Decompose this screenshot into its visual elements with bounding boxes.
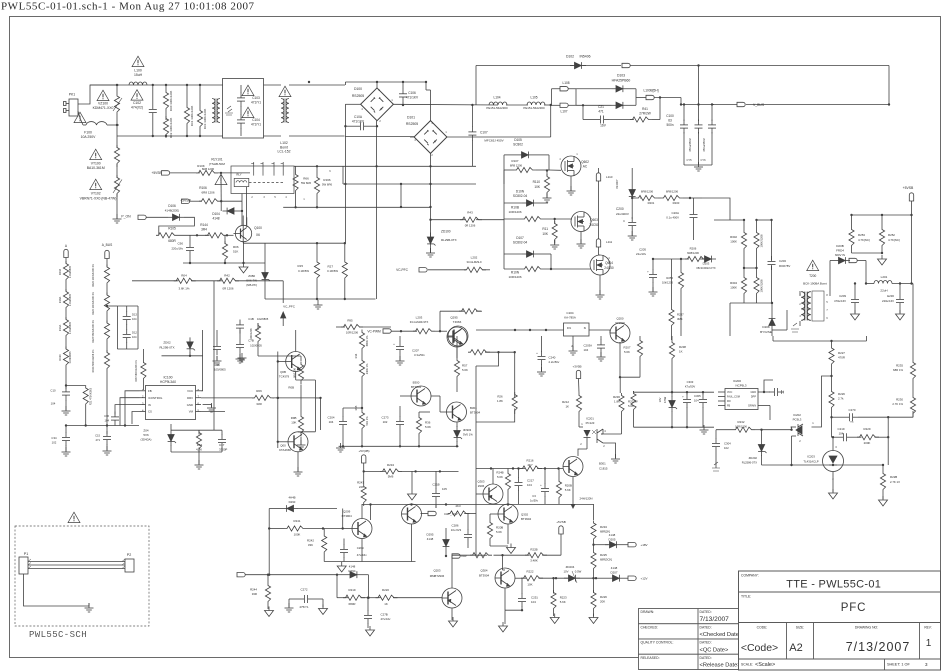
svg-text:D103: D103 [617,74,625,78]
svg-text:R250: R250 [666,276,673,280]
svg-text:VC-PWM: VC-PWM [367,330,381,334]
svg-text:R21 475K/0805: R21 475K/0805 [90,387,93,405]
svg-text:C204: C204 [566,311,574,315]
svg-text:DATED:: DATED: [700,625,712,629]
svg-text:IC100: IC100 [163,376,172,380]
svg-text:L108: L108 [562,81,569,85]
svg-text:PWL55C-SCH: PWL55C-SCH [29,630,87,640]
svg-text:C21B: C21B [432,483,439,487]
svg-text:D295: D295 [427,533,434,537]
svg-text:4148: 4148 [427,537,434,541]
svg-text:5.6K: 5.6K [462,368,468,372]
svg-text:C102: C102 [133,101,141,105]
svg-text:T4666: T4666 [453,320,462,324]
svg-text:104: 104 [584,348,589,352]
svg-text:102/0805: 102/0805 [257,317,269,321]
svg-text:R10B: R10B [511,206,519,210]
svg-text:22uH: 22uH [880,289,887,293]
svg-text:0.1R/5W: 0.1R/5W [298,269,309,273]
svg-text:R66: R66 [303,177,309,181]
svg-text:FRD4: FRD4 [836,249,844,253]
svg-text:L202: L202 [471,256,478,260]
svg-text:R14: R14 [354,353,358,358]
svg-text:R236: R236 [613,395,620,399]
svg-text:4148: 4148 [349,565,356,569]
svg-text:R95: R95 [347,319,353,323]
svg-text:VBRN71-XX0 (NB-47W): VBRN71-XX0 (NB-47W) [80,197,117,201]
svg-text:6R8 1206: 6R8 1206 [202,167,215,171]
svg-text:C20A: C20A [671,211,679,215]
svg-text:5.6K: 5.6K [496,530,502,534]
svg-text:R41: R41 [642,107,648,111]
svg-text:1K: 1K [384,602,388,606]
svg-text:DRAWN:: DRAWN: [641,610,655,614]
svg-text:10R/1206: 10R/1206 [508,210,521,214]
svg-text:10K: 10K [291,421,296,425]
svg-text:2.2u/50v: 2.2u/50v [549,360,560,364]
svg-text:5.6K: 5.6K [560,600,566,604]
svg-text:BT3904: BT3904 [342,514,353,518]
svg-text:(NB-PF): (NB-PF) [246,283,257,287]
svg-text:24H/120N: 24H/120N [579,497,592,501]
svg-text:Q303: Q303 [477,480,484,484]
svg-text:DATED:: DATED: [700,656,712,660]
svg-text:R230: R230 [896,398,903,402]
svg-text:BT3904: BT3904 [470,411,481,415]
svg-text:R17: R17 [197,443,203,447]
svg-text:PK1: PK1 [69,93,76,97]
svg-text:R144: R144 [200,223,208,227]
svg-text:L100: L100 [134,69,142,73]
svg-text:R18A: R18A [58,296,62,303]
svg-text:RX1 330K/1206: RX1 330K/1206 [190,105,194,126]
svg-text:DPP: DPP [751,396,756,399]
svg-text:102: 102 [724,446,729,450]
svg-text:5.6K: 5.6K [624,350,630,354]
svg-text:L105: L105 [530,96,537,100]
svg-text:470u/16V: 470u/16V [834,299,846,303]
svg-text:C207: C207 [412,349,419,353]
svg-text:R225: R225 [600,553,607,557]
svg-text:C305: C305 [694,394,701,398]
svg-text:ZD204: ZD204 [566,565,575,569]
svg-text:350u/450V: 350u/450V [688,138,692,152]
svg-text:C217: C217 [527,479,534,483]
svg-text:24C50: 24C50 [589,223,599,227]
svg-text:Q100: Q100 [254,226,262,230]
svg-text:R22B: R22B [530,548,537,552]
svg-text:R105: R105 [168,227,176,231]
svg-text:R45 560K/1206 1%: R45 560K/1206 1% [135,359,138,381]
svg-text:A_BUS: A_BUS [102,243,112,247]
svg-text:CY5: CY5 [686,158,692,162]
svg-text:1K: 1K [679,350,683,354]
svg-text:VZ100: VZ100 [98,102,108,106]
svg-text:4148: 4148 [609,533,616,537]
svg-text:FAUL_COM: FAUL_COM [727,396,740,399]
svg-text:C34: C34 [51,436,57,440]
svg-text:IN: IN [148,403,151,407]
svg-text:RX3 330K/1206: RX3 330K/1206 [203,108,207,129]
svg-text:10R/1206: 10R/1206 [735,424,747,428]
svg-text:C10: C10 [50,389,56,393]
svg-text:100K: 100K [730,240,737,244]
svg-text:VC-PFC: VC-PFC [396,268,409,272]
svg-text:R232: R232 [738,420,745,424]
svg-text:C204: C204 [328,416,335,420]
svg-text:1.0M/0805: 1.0M/0805 [68,265,72,278]
svg-text:Q200: Q200 [616,317,623,321]
svg-text:CS: CS [148,410,152,414]
svg-text:R166: R166 [323,178,331,182]
svg-text:C4B: C4B [214,363,220,367]
svg-text:R57: R57 [462,364,468,368]
svg-text:Q203: Q203 [433,569,440,573]
svg-text:R11: R11 [542,227,548,231]
svg-text:L107: L107 [560,110,567,114]
svg-text:R241: R241 [294,519,301,523]
svg-text:+: + [393,342,395,346]
svg-text:C107: C107 [480,131,488,135]
svg-text:63: 63 [668,119,672,123]
svg-text:SHEET: 1 OF: SHEET: 1 OF [887,663,910,667]
svg-text:105/0805: 105/0805 [214,368,226,372]
svg-text:C10A: C10A [354,115,363,119]
svg-text:VT100: VT100 [91,162,101,166]
svg-text:IC201: IC201 [586,417,594,421]
svg-text:5.6K: 5.6K [565,488,571,492]
svg-text:R022 100K/1206 1%: R022 100K/1206 1% [92,263,95,287]
svg-text:C200: C200 [616,207,624,211]
svg-text:24C50: 24C50 [604,266,614,270]
svg-text:1u/50v: 1u/50v [530,499,539,503]
svg-text:R27: R27 [327,265,333,269]
svg-text:C: C [623,219,625,223]
svg-text:RL2586-0TX: RL2586-0TX [742,461,757,465]
svg-text:L104: L104 [493,96,500,100]
svg-text:R207: R207 [624,346,631,350]
svg-text:R238: R238 [679,345,686,349]
svg-text:R20B: R20B [565,484,572,488]
svg-text:1.8K: 1.8K [614,400,620,404]
svg-text:QUALITY CONTROL:: QUALITY CONTROL: [641,641,674,645]
svg-text:UHP: UHP [461,554,467,558]
svg-text:2906: 2906 [478,484,485,488]
svg-text:RS2505: RS2505 [352,94,364,98]
svg-text:4148: 4148 [212,217,219,221]
svg-text:R222: R222 [527,570,534,574]
svg-text:104: 104 [527,483,532,487]
svg-text:10R/1206: 10R/1206 [508,275,521,279]
svg-text:GND: GND [187,403,193,407]
svg-text:102/0805: 102/0805 [250,343,262,347]
svg-text:5V6: 5V6 [143,433,149,437]
svg-text:E230: E230 [887,294,894,298]
svg-text:104: 104 [531,600,536,604]
svg-text:0R 1206: 0R 1206 [223,286,234,290]
svg-text:104: 104 [105,419,110,423]
svg-text:D12: D12 [132,331,137,335]
svg-text:ZD100: ZD100 [441,230,451,234]
svg-text:Q00: Q00 [280,444,286,448]
svg-text:5V6 1%: 5V6 1% [463,433,473,437]
svg-text:PC123: PC123 [586,421,595,425]
svg-text:DRAWING NO:: DRAWING NO: [855,626,878,630]
svg-text:C27B: C27B [381,613,388,617]
svg-text:3.3u/50v: 3.3u/50v [414,353,425,357]
svg-text:5W 6R6: 5W 6R6 [322,183,333,187]
svg-text:R110: R110 [533,180,541,184]
svg-text:33R: 33R [256,402,262,406]
svg-text:68R[3CK]: 68R[3CK] [600,558,612,562]
svg-text:4.7K: 4.7K [196,447,202,451]
svg-text:C1B: C1B [248,317,254,321]
svg-text:R122 100K/1206 1%: R122 100K/1206 1% [92,291,95,315]
svg-text:CODE:: CODE: [757,626,768,630]
svg-text:LCL-152: LCL-152 [277,150,290,154]
svg-text:R235: R235 [896,364,903,368]
svg-text:C286: C286 [452,524,459,528]
svg-text:KTA4666: KTA4666 [279,448,291,452]
svg-text:V_BUS: V_BUS [753,103,765,107]
svg-text:DATED:: DATED: [700,610,712,614]
svg-text:R206: R206 [690,247,697,251]
svg-text:R242: R242 [307,539,314,543]
svg-text:22K: 22K [359,485,364,489]
svg-text:MMBT2906: MMBT2906 [430,574,445,578]
svg-text:10A 250V: 10A 250V [81,135,96,139]
svg-text:470R: 470R [838,356,845,360]
svg-text:R219: R219 [349,588,356,592]
svg-text:RO: RO [727,400,731,403]
svg-text:500n: 500n [666,123,673,127]
svg-text:10K: 10K [542,232,549,236]
svg-text:TTE - PWL55C-01: TTE - PWL55C-01 [786,579,881,591]
svg-text:471: 471 [598,110,604,114]
svg-text:Z080: Z080 [248,274,255,278]
svg-text:0.5W: 0.5W [575,570,582,574]
svg-text:15uH: 15uH [134,73,143,77]
svg-text:240K 1%: 240K 1% [365,363,369,374]
svg-text:R43: R43 [467,211,473,215]
svg-text:D107: D107 [516,236,524,240]
svg-text:R020: R020 [58,354,62,361]
svg-text:33-GLM29-9TX: 33-GLM29-9TX [410,320,429,324]
svg-text:R26: R26 [497,395,503,399]
svg-text:R06: R06 [256,389,262,393]
svg-text:105: 105 [442,487,447,491]
svg-text:D100: D100 [354,87,362,91]
svg-text:D101: D101 [407,116,415,120]
svg-text:HFA25PB60: HFA25PB60 [612,79,631,83]
svg-text:16V: 16V [600,124,607,128]
svg-text:7/13/2007: 7/13/2007 [846,640,911,654]
svg-text:RS2505: RS2505 [406,122,418,126]
svg-text:ZD02: ZD02 [163,341,171,345]
svg-text:1.0M/0805: 1.0M/0805 [68,321,72,334]
svg-text:VCC: VCC [727,391,732,394]
svg-text:R252: R252 [888,233,895,237]
svg-text:104: 104 [329,420,334,424]
svg-text:104: 104 [132,335,137,339]
svg-text:680K 1%: 680K 1% [365,335,369,346]
svg-text:R36: R36 [425,421,431,425]
svg-text:4.7K[NC]: 4.7K[NC] [888,238,900,242]
svg-text:KDM471-XX0: KDM471-XX0 [93,106,114,110]
svg-text:[TSHB-50M: [TSHB-50M [209,162,225,166]
svg-text:R22B: R22B [890,475,897,479]
svg-text:L201: L201 [881,275,888,279]
svg-text:VM: VM [189,410,194,414]
svg-text:100K: 100K [730,286,737,290]
svg-text:33R: 33R [252,592,257,596]
svg-text:BCK-190BA Bomt: BCK-190BA Bomt [803,282,827,286]
svg-text:R237: R237 [677,313,684,317]
svg-text:5.6K: 5.6K [425,425,431,429]
svg-text:1: 1 [926,638,932,649]
svg-text:104: 104 [839,431,844,435]
svg-text:SC802-04: SC802-04 [513,194,528,198]
svg-text:6R8/1206: 6R8/1206 [666,190,679,194]
svg-text:RL29B-0TX: RL29B-0TX [159,345,174,349]
svg-text:TC4379: TC4379 [279,375,290,379]
svg-text:104: 104 [132,317,137,321]
svg-text:<Code>: <Code> [741,642,778,654]
svg-text:IN: IN [584,328,587,330]
svg-text:L110: L110 [606,175,613,179]
svg-text:R106: R106 [199,186,207,190]
svg-text:C273: C273 [382,416,389,420]
svg-text:0.1u 400V: 0.1u 400V [666,216,679,220]
svg-text:D13: D13 [132,313,137,317]
svg-text:B300: B300 [413,381,420,385]
svg-text:200K: 200K [864,441,871,445]
svg-text:B301: B301 [599,462,606,466]
svg-text:471/Y1: 471/Y1 [251,101,261,105]
svg-text:C36: C36 [104,414,109,418]
svg-text:IN5406: IN5406 [580,55,591,59]
svg-text:4148(2DE): 4148(2DE) [165,209,180,213]
svg-text:MFC65J 450V: MFC65J 450V [484,139,503,143]
svg-text:IC202: IC202 [793,413,801,417]
svg-text:68R 1%: 68R 1% [893,368,903,372]
svg-text:IN/1: IN/1 [567,328,572,330]
svg-text:<Scale>: <Scale> [755,662,775,668]
svg-text:C104: C104 [252,118,260,122]
svg-text:C100: C100 [666,114,674,118]
svg-text:6R8/1206: 6R8/1206 [641,190,654,194]
svg-text:D290: D290 [289,500,296,504]
svg-text:FB: FB [727,405,731,408]
svg-text:R244: R244 [250,588,257,592]
svg-text:AC: AC [583,165,588,169]
svg-text:D10N: D10N [516,190,525,194]
svg-text:DATED:: DATED: [700,641,712,645]
svg-text:D20B: D20B [836,244,844,248]
svg-text:3D903: 3D903 [463,428,472,432]
svg-text:VCC: VCC [187,389,193,393]
svg-text:475/Y1: 475/Y1 [299,605,309,609]
svg-text:104: 104 [694,399,699,403]
svg-text:R04: R04 [181,273,187,277]
svg-text:IN4007: IN4007 [615,179,619,188]
svg-text:RLY101: RLY101 [211,158,223,162]
svg-text:D106: D106 [168,204,176,208]
svg-text:SCALE:: SCALE: [741,663,753,667]
svg-text:L100B[5H]: L100B[5H] [643,89,658,93]
svg-text:C303: C303 [687,380,694,384]
svg-text:R10A: R10A [58,324,62,331]
svg-text:P_ON: P_ON [121,215,131,219]
svg-text:KA-785A: KA-785A [564,316,576,320]
svg-text:3300P: 3300P [219,447,227,451]
svg-text:4H4B: 4H4B [289,496,296,500]
svg-text:350u/450V: 350u/450V [702,138,706,152]
svg-text:4.7K[NC]: 4.7K[NC] [858,238,870,242]
svg-text:+5VSB: +5VSB [903,186,914,190]
svg-text:CHECKED:: CHECKED: [641,625,659,629]
svg-text:GND: GND [750,391,756,394]
svg-text:C17: C17 [219,443,225,447]
svg-text:D203: D203 [703,262,710,266]
svg-text:100K/1206: 100K/1206 [760,279,764,293]
svg-text:C209: C209 [357,546,364,550]
svg-text:R216: R216 [527,459,534,463]
svg-text:+12V: +12V [640,577,647,581]
svg-text:TL431ACLP: TL431ACLP [803,460,818,464]
svg-text:5.6K: 5.6K [628,404,634,408]
svg-text:+5V(3B): +5V(3B) [358,449,369,453]
svg-text:<Checked Date>: <Checked Date> [700,632,743,638]
svg-text:C203: C203 [779,259,786,263]
svg-text:1.0M/0805: 1.0M/0805 [68,293,72,306]
svg-text:T200: T200 [809,274,816,278]
svg-text:SC802: SC802 [513,143,523,147]
svg-text:R201: R201 [648,201,655,205]
svg-text:X6: X6 [256,233,260,237]
svg-text:COMPANY:: COMPANY: [741,574,759,578]
svg-text:C21: C21 [598,105,604,109]
svg-text:R016: R016 [58,268,62,275]
svg-text:471: 471 [96,438,101,442]
svg-text:Q604: Q604 [605,261,613,265]
svg-text:1.0M/0805: 1.0M/0805 [68,351,72,364]
svg-text:10u 6V3: 10u 6V3 [451,528,462,532]
svg-text:33-GLM29-9: 33-GLM29-9 [466,260,482,264]
svg-text:Q0B: Q0B [280,370,286,374]
svg-text:5M6: 5M6 [388,475,394,479]
svg-text:10V: 10V [658,397,662,402]
svg-text:C3: C3 [532,494,536,498]
svg-text:+5VSB: +5VSB [556,520,565,524]
svg-text:D104: D104 [212,212,220,216]
svg-text:C15: C15 [95,434,100,438]
svg-text:10R/1206: 10R/1206 [346,331,359,335]
svg-text:C270: C270 [849,408,856,412]
svg-text:BA10-361M: BA10-361M [87,166,105,170]
svg-text:2.7k: 2.7k [838,397,844,401]
svg-text:102: 102 [52,441,57,445]
svg-text:C205: C205 [639,248,646,252]
svg-text:471/1KV: 471/1KV [406,96,419,100]
svg-text:Z04: Z04 [143,429,149,433]
svg-text:47u/16v: 47u/16v [381,617,392,621]
svg-text:33K: 33K [308,543,313,547]
svg-text:C106: C106 [408,91,416,95]
svg-text:6R8 1206: 6R8 1206 [510,163,523,167]
svg-text:R212: R212 [562,400,569,404]
svg-text:474(X2): 474(X2) [131,106,143,110]
